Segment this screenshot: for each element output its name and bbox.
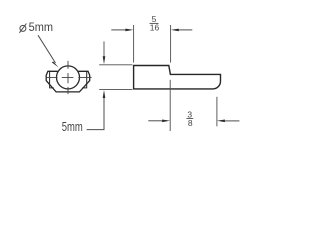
svg-text:16: 16 — [150, 23, 160, 33]
svg-text:5mm: 5mm — [29, 20, 53, 34]
svg-text:5mm: 5mm — [62, 119, 83, 134]
svg-text:8: 8 — [188, 118, 193, 128]
